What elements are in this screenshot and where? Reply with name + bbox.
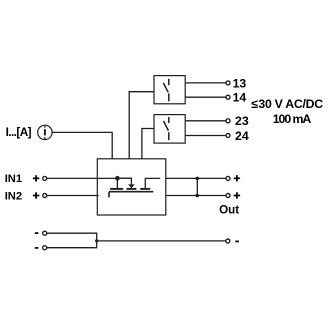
minus sign bottom left 2 [35,247,39,249]
wire K1 to terminal 14 [185,96,226,98]
main output box U1 [97,159,166,215]
terminal circle bottom left 2 [43,246,47,250]
wire bar 3 to right [145,178,160,188]
svg-text:IN1: IN1 [5,173,22,185]
plus sign IN2 [33,192,39,198]
junction dot node A [115,176,120,181]
wire K2 to terminal 23 [185,120,226,122]
junction dot bottom [95,239,98,242]
wire K1 left to main box top [129,92,154,159]
svg-text:IN2: IN2 [5,190,22,202]
svg-text:23: 23 [235,114,249,128]
wire sensor to main box top [52,132,112,158]
wire K2 left to main box top [142,129,154,159]
switch contact in K1 [163,79,169,102]
wire IN1 to internal node [47,177,117,179]
terminal circle IN1 [43,176,47,180]
arrow head Q1 gate [128,184,135,188]
svg-text:14: 14 [233,91,247,105]
junction dot out top [196,177,200,181]
wire bottom left 2 [47,241,97,248]
wire out plus top [166,177,226,179]
terminal circle 13 [226,81,230,85]
relay box K1 [154,76,185,104]
wire out plus bottom [166,195,226,197]
switch contact in K2 [164,117,169,140]
wire K1 to terminal 13 [185,82,226,84]
minus sign bottom right [235,240,239,242]
terminal circle out top [226,176,230,180]
plus sign out top [234,175,240,181]
terminal circle bottom right [226,239,230,243]
terminal circle IN2 [43,194,47,198]
wire bottom to minus terminal [97,240,226,242]
plus sign IN1 [33,175,39,181]
MOSFET bar 1 [110,188,123,190]
relay box K2 [154,115,185,144]
svg-text:100 mA: 100 mA [273,112,312,126]
MOSFET bar 2 [127,188,137,190]
svg-text:13: 13 [233,76,247,90]
svg-text:Out: Out [219,203,239,216]
MOSFET bar 3 [140,188,150,190]
svg-text:24: 24 [235,129,249,143]
wire node A down to source bar [116,178,118,188]
minus sign bottom left 1 [35,232,39,234]
plus sign out bottom [234,192,240,198]
wire out link [196,178,198,195]
junction dot out bottom [196,194,200,198]
wire K2 to terminal 24 [185,135,226,137]
current sensor circle P1 [38,125,52,139]
terminal circle 24 [226,134,230,138]
svg-text:I...[A]: I...[A] [6,125,32,139]
MOSFET gate line [109,191,153,193]
wire node A to gate arrow [117,178,131,185]
terminal circle 14 [226,95,230,99]
terminal circle 23 [226,119,230,123]
svg-text:≤ 30 V AC/DC: ≤ 30 V AC/DC [251,97,323,111]
terminal circle bottom left 1 [43,231,47,235]
terminal circle out bottom [226,194,230,198]
gate lead [108,192,110,198]
wire IN2 to box [47,195,99,197]
wire bottom left 1 [47,233,97,241]
